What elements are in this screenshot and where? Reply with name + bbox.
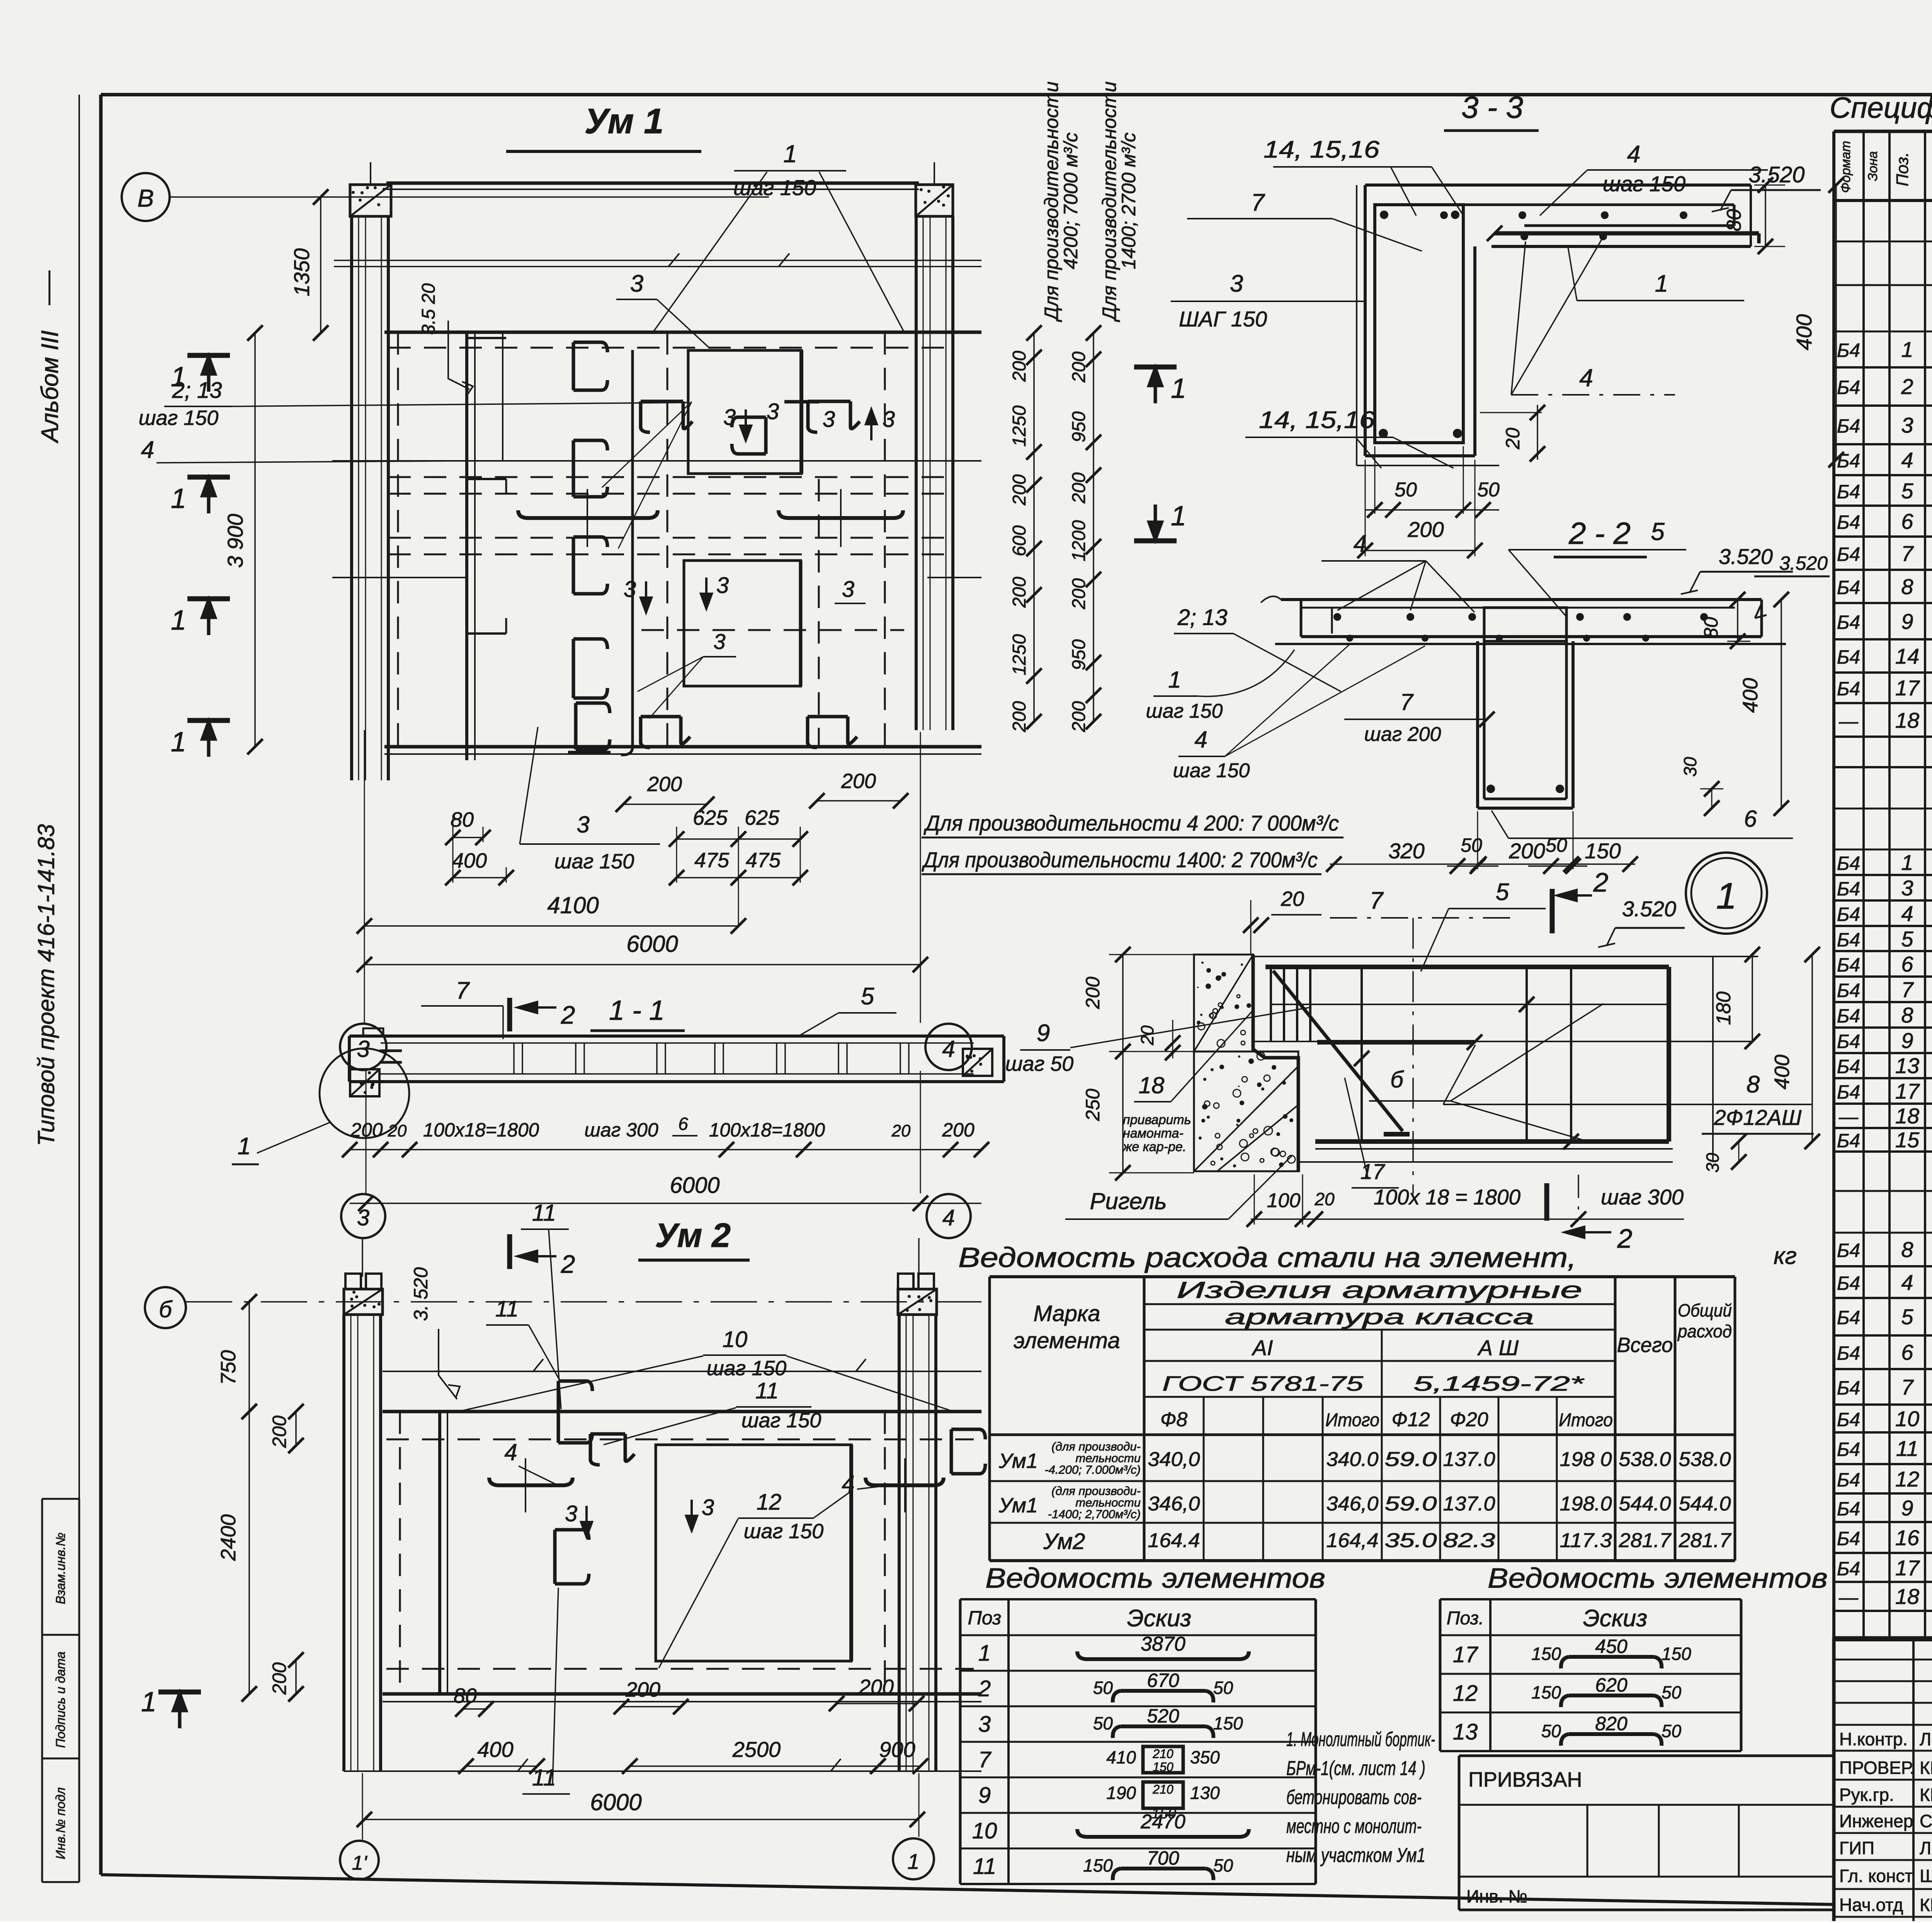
plan Um2 opening rect (656, 1445, 851, 1661)
svg-text:100х 18 = 1800: 100х 18 = 1800 (1374, 1185, 1520, 1209)
title block outer frame (1834, 1636, 1932, 1640)
svg-text:538.0: 538.0 (1619, 1448, 1671, 1471)
svg-text:ПРИВЯЗАН: ПРИВЯЗАН (1468, 1768, 1582, 1791)
svg-text:1: 1 (1655, 270, 1668, 297)
plan dashed rows (641, 629, 904, 631)
svg-text:1: 1 (1901, 850, 1913, 875)
axis verticals from circles to plan Um2 (362, 1238, 363, 1290)
svg-text:820: 820 (1595, 1713, 1628, 1734)
svg-text:2 - 2: 2 - 2 (1568, 516, 1631, 550)
svg-text:320: 320 (1388, 839, 1424, 863)
svg-text:Марка: Марка (1033, 1301, 1100, 1326)
svg-text:3: 3 (716, 573, 729, 598)
svg-text:164,4: 164,4 (1327, 1529, 1379, 1552)
title block signature grid (1834, 1659, 1932, 1661)
svg-text:12: 12 (757, 1490, 782, 1515)
svg-text:Инв. №: Инв. № (1466, 1886, 1527, 1906)
rebar stirrup C symbols plan Um1 (573, 342, 601, 390)
svg-text:1400; 2700 м³/с: 1400; 2700 м³/с (1118, 133, 1139, 269)
dim 1350 left of plan (320, 197, 321, 333)
svg-text:5: 5 (1901, 927, 1913, 951)
svg-text:Нач.отд: Нач.отд (1839, 1895, 1903, 1915)
section mark 2 upper for 1-1 (507, 998, 512, 1031)
svg-text:11: 11 (1896, 1436, 1918, 1461)
svg-text:шаг 300: шаг 300 (1601, 1185, 1684, 1209)
svg-text:1: 1 (1171, 373, 1186, 404)
svg-text:620: 620 (1595, 1674, 1628, 1696)
svg-text:АI: АI (1252, 1335, 1273, 1360)
svg-text:82.3: 82.3 (1443, 1529, 1495, 1552)
svg-text:200: 200 (1009, 474, 1030, 506)
svg-text:БРм-1(см. лист 14 ): БРм-1(см. лист 14 ) (1286, 1757, 1425, 1780)
svg-text:9: 9 (1037, 1020, 1050, 1046)
svg-text:150: 150 (1531, 1682, 1561, 1702)
svg-text:2: 2 (1617, 1223, 1633, 1254)
svg-text:местно с монолит-: местно с монолит- (1286, 1815, 1422, 1838)
svg-text:190: 190 (1106, 1783, 1136, 1803)
svg-text:200: 200 (1069, 472, 1089, 504)
beam stirrup sec33 (1375, 205, 1463, 443)
svg-text:475: 475 (746, 849, 781, 872)
dim row under section 1-1 (350, 1149, 981, 1150)
svg-text:шаг 200: шаг 200 (1364, 723, 1441, 746)
axis circle 3 Um2 (341, 1194, 385, 1238)
svg-text:3: 3 (978, 1712, 991, 1737)
node1 concrete upper block (1194, 955, 1253, 1052)
svg-text:шаг 300: шаг 300 (584, 1119, 658, 1141)
svg-text:3: 3 (1901, 413, 1913, 437)
svg-text:346,0: 346,0 (1327, 1493, 1379, 1515)
svg-text:100: 100 (1267, 1189, 1301, 1212)
svg-text:Поз.: Поз. (1893, 152, 1912, 187)
svg-text:5: 5 (1901, 479, 1913, 503)
svg-text:Б4: Б4 (1837, 481, 1860, 503)
svg-text:Взам.инв.№: Взам.инв.№ (53, 1532, 68, 1604)
node1 formwork edge thick (1253, 955, 1298, 1172)
svg-text:475: 475 (694, 849, 730, 872)
svg-text:ПРОВЕР.: ПРОВЕР. (1839, 1758, 1915, 1778)
svg-text:5: 5 (861, 983, 874, 1010)
svg-text:150: 150 (1083, 1855, 1113, 1875)
svg-text:шаг 150: шаг 150 (139, 406, 219, 430)
svg-text:—: — (1838, 1106, 1859, 1128)
svg-text:410: 410 (1106, 1747, 1136, 1767)
svg-text:3: 3 (842, 577, 854, 602)
svg-text:шаг 50: шаг 50 (1005, 1052, 1074, 1075)
svg-text:6000: 6000 (626, 931, 678, 957)
svg-text:Для производительности 1400: 2: Для производительности 1400: 2 700м³/с (921, 848, 1318, 872)
svg-text:198.0: 198.0 (1560, 1493, 1612, 1515)
svg-text:9: 9 (978, 1783, 991, 1808)
svg-text:4: 4 (1901, 448, 1913, 472)
svg-text:18: 18 (1895, 708, 1919, 732)
svg-text:35.0: 35.0 (1385, 1529, 1437, 1552)
sheet inner edge line (78, 95, 80, 1875)
svg-text:ШАГ 150: ШАГ 150 (1179, 307, 1267, 331)
svg-text:7: 7 (1901, 977, 1914, 1002)
plan bottom edge (384, 745, 981, 749)
svg-text:3: 3 (565, 1501, 577, 1526)
svg-text:400: 400 (1792, 314, 1816, 350)
node1 concrete lower block (1194, 1052, 1298, 1171)
slab sec22 (1261, 596, 1281, 603)
svg-text:10: 10 (1895, 1407, 1919, 1431)
svg-text:50: 50 (1541, 1721, 1561, 1741)
svg-text:137.0: 137.0 (1443, 1448, 1495, 1471)
section mark 2 lower for 1-1 (507, 1234, 512, 1269)
plan mid line 1 (332, 460, 981, 462)
svg-text:7: 7 (1901, 541, 1914, 566)
svg-text:Типовой проект 416-1-141.: Типовой проект 416-1-141.83 (33, 824, 59, 1146)
svg-text:6000: 6000 (670, 1173, 719, 1198)
svg-text:700: 700 (1147, 1847, 1179, 1869)
svg-text:450: 450 (1595, 1636, 1628, 1657)
svg-text:59.0: 59.0 (1385, 1448, 1437, 1471)
svg-text:В: В (138, 184, 154, 212)
svg-text:1: 1 (171, 605, 186, 636)
svg-text:1350: 1350 (289, 248, 314, 297)
svg-text:9: 9 (1901, 1028, 1913, 1053)
svg-text:11: 11 (532, 1200, 556, 1226)
svg-text:6: 6 (678, 1114, 688, 1134)
opening rect upper (688, 350, 801, 474)
svg-text:1200: 1200 (1069, 520, 1089, 561)
svg-text:Б4: Б4 (1837, 980, 1860, 1001)
svg-text:50: 50 (1395, 479, 1417, 501)
svg-text:3870: 3870 (1141, 1633, 1185, 1655)
svg-text:50: 50 (1546, 834, 1567, 856)
svg-text:Б4: Б4 (1837, 577, 1860, 598)
svg-text:4: 4 (942, 1205, 955, 1230)
lap bar symbols with hooks (527, 516, 649, 520)
spec concrete row group 2 (1834, 1190, 1932, 1192)
svg-text:538.0: 538.0 (1679, 1448, 1731, 1471)
svg-text:200: 200 (942, 1119, 975, 1141)
spec rows group 2 (1834, 874, 1932, 876)
svg-text:520: 520 (1147, 1705, 1179, 1727)
svg-text:Ф20: Ф20 (1450, 1408, 1488, 1431)
svg-text:1: 1 (1171, 501, 1186, 532)
svg-text:-4.200; 7.000м³/с): -4.200; 7.000м³/с) (1044, 1463, 1141, 1476)
svg-text:200: 200 (350, 1119, 383, 1141)
specification table grid verticals (1832, 131, 1835, 1640)
svg-text:ГИП: ГИП (1839, 1838, 1874, 1858)
svg-text:Н.контр.: Н.контр. (1839, 1729, 1908, 1749)
svg-text:2: 2 (561, 1250, 575, 1278)
svg-text:2; 13: 2; 13 (172, 378, 222, 403)
svg-text:Ум 2: Ум 2 (655, 1216, 731, 1254)
svg-text:2: 2 (1901, 374, 1913, 399)
svg-text:Поз.: Поз. (1447, 1608, 1484, 1629)
svg-text:164.4: 164.4 (1148, 1529, 1200, 1552)
svg-text:Для производительности: Для производительности (1041, 82, 1062, 323)
axis circle 1prime Um2 (340, 1841, 379, 1879)
element list table 1 grid (959, 1599, 962, 1884)
svg-text:Б4: Б4 (1837, 929, 1860, 951)
svg-text:400: 400 (1770, 1055, 1794, 1089)
svg-text:ШАПИРО: ШАПИРО (1920, 1866, 1932, 1886)
svg-text:20: 20 (1314, 1189, 1335, 1209)
svg-text:1 - 1: 1 - 1 (609, 995, 665, 1026)
slab 1-1 left anchor block (350, 1069, 379, 1096)
svg-text:3: 3 (1901, 876, 1913, 900)
svg-text:18: 18 (1895, 1584, 1919, 1609)
svg-text:Ум2: Ум2 (1043, 1529, 1085, 1554)
svg-text:50: 50 (1093, 1678, 1113, 1698)
svg-text:200: 200 (647, 773, 682, 796)
node1 bottom lines (1315, 1148, 1673, 1150)
svg-text:Ведомость элементов: Ведомость элементов (985, 1563, 1325, 1594)
svg-text:Б4: Б4 (1837, 678, 1860, 700)
svg-text:20: 20 (1137, 1025, 1157, 1046)
axis circle 1 Um2 (893, 1838, 934, 1879)
dashed verticals in plan (397, 332, 399, 747)
svg-text:Спецификация элементов мон: Спецификация элементов монолитных участк… (1830, 92, 1932, 124)
svg-text:200: 200 (859, 1675, 894, 1699)
svg-text:Б4: Б4 (1837, 1005, 1860, 1027)
svg-text:Ведомость расхода стали на: Ведомость расхода стали на элемент, (958, 1242, 1577, 1273)
svg-text:Ф12: Ф12 (1391, 1408, 1430, 1431)
leader lines from 2;13 to stirrups (602, 402, 692, 549)
svg-text:210: 210 (1152, 1782, 1173, 1796)
svg-text:3: 3 (624, 577, 636, 602)
svg-text:шаг 150: шаг 150 (1173, 759, 1250, 782)
svg-text:Б4: Б4 (1837, 904, 1860, 925)
section mark 2 top of node (1550, 889, 1555, 933)
column K2 strip (915, 216, 918, 730)
svg-text:12: 12 (1895, 1467, 1919, 1491)
svg-text:11: 11 (495, 1296, 519, 1322)
svg-text:КРАСНОВА: КРАСНОВА (1920, 1758, 1932, 1778)
svg-text:1: 1 (238, 1133, 251, 1160)
svg-text:Общий: Общий (1678, 1300, 1732, 1320)
svg-text:13: 13 (1453, 1719, 1478, 1745)
svg-text:11: 11 (973, 1854, 996, 1879)
svg-text:150: 150 (1153, 1760, 1173, 1774)
svg-text:Б4: Б4 (1837, 1377, 1860, 1399)
svg-text:50: 50 (1461, 834, 1482, 856)
svg-text:281.7: 281.7 (1678, 1529, 1731, 1552)
svg-text:625: 625 (693, 806, 728, 829)
svg-text:5: 5 (1901, 1305, 1913, 1329)
svg-text:180: 180 (1713, 992, 1735, 1025)
svg-text:281.7: 281.7 (1618, 1529, 1672, 1552)
svg-text:намонта-: намонта- (1123, 1126, 1184, 1141)
svg-text:б: б (159, 1296, 173, 1322)
drawing frame border (101, 93, 1932, 97)
svg-text:3: 3 (713, 629, 725, 654)
svg-text:Для производительности: Для производительности (1099, 82, 1120, 323)
svg-text:Б4: Б4 (1837, 415, 1860, 437)
svg-text:6: 6 (1901, 509, 1913, 533)
level line 3.520 row (334, 260, 981, 261)
svg-text:340.0: 340.0 (1327, 1448, 1379, 1471)
svg-text:Гл. конст.: Гл. конст. (1839, 1866, 1916, 1886)
beam outline sec33 (1356, 185, 1357, 465)
svg-text:2400: 2400 (217, 1514, 240, 1561)
specification table header (1834, 130, 1932, 133)
svg-text:7: 7 (1251, 189, 1265, 216)
svg-text:20: 20 (388, 1121, 407, 1140)
svg-text:Б4: Б4 (1837, 853, 1860, 874)
svg-text:130: 130 (1190, 1783, 1220, 1803)
svg-text:1: 1 (1901, 337, 1913, 362)
svg-text:600: 600 (1009, 525, 1030, 556)
section marks 1-1 left side (187, 353, 230, 358)
plan Um2 slab top edge (383, 1410, 981, 1413)
svg-text:Ведомость элементов: Ведомость элементов (1488, 1563, 1828, 1594)
svg-text:Эскиз: Эскиз (1127, 1605, 1192, 1632)
slab 1-1 spacers (513, 1043, 515, 1074)
svg-text:3.520: 3.520 (1748, 162, 1804, 187)
svg-text:1: 1 (171, 727, 186, 758)
privyazan stamp box (1459, 1755, 1834, 1757)
dim 3900 left of plan (254, 333, 256, 747)
svg-text:14, 15,16: 14, 15,16 (1264, 136, 1380, 163)
svg-text:Б4: Б4 (1837, 511, 1860, 533)
column K2 hatched head (916, 185, 953, 216)
svg-text:1: 1 (171, 483, 186, 514)
svg-text:Б4: Б4 (1837, 1081, 1860, 1103)
svg-text:8: 8 (1901, 574, 1913, 599)
svg-text:670: 670 (1147, 1670, 1179, 1691)
svg-text:3: 3 (630, 270, 643, 297)
svg-text:А Ш: А Ш (1477, 1335, 1519, 1360)
svg-text:ЛОУЦКЕР: ЛОУЦКЕР (1920, 1838, 1932, 1858)
svg-text:Б4: Б4 (1837, 1240, 1860, 1261)
column strips Um2 with curb blocks (345, 1274, 361, 1289)
svg-text:КРАСНОВА: КРАСНОВА (1920, 1785, 1932, 1805)
axis circle 4 for section 1-1 (925, 1024, 972, 1070)
svg-text:Инв.№ подл: Инв.№ подл (53, 1787, 68, 1859)
svg-text:2: 2 (1593, 867, 1609, 897)
svg-text:кг: кг (1774, 1243, 1797, 1269)
axis circle V (122, 173, 170, 221)
svg-text:13: 13 (1895, 1053, 1919, 1078)
svg-text:17: 17 (1895, 1079, 1920, 1103)
svg-text:30: 30 (1702, 1153, 1723, 1173)
svg-text:100х18=1800: 100х18=1800 (709, 1119, 825, 1141)
slab rebar dots sec22 (1333, 613, 1341, 621)
svg-text:Итого: Итого (1559, 1410, 1613, 1430)
svg-text:Эскиз: Эскиз (1583, 1605, 1648, 1632)
plan slab top edge (384, 331, 981, 334)
spec group Um1 (1400,2700) header (1834, 808, 1932, 810)
svg-text:4100: 4100 (547, 892, 599, 918)
svg-text:30: 30 (1680, 757, 1700, 777)
svg-text:элемента: элемента (1014, 1328, 1120, 1353)
svg-text:3: 3 (883, 407, 895, 432)
svg-text:150: 150 (1531, 1644, 1561, 1664)
spec rows group 3 (1834, 1265, 1932, 1267)
svg-text:1250: 1250 (1009, 634, 1030, 675)
svg-text:Б4: Б4 (1837, 1439, 1860, 1460)
svg-text:17: 17 (1895, 676, 1920, 700)
svg-text:18: 18 (1895, 1104, 1919, 1128)
svg-text:1250: 1250 (1009, 405, 1030, 447)
section mark 2 bottom of node (1544, 1183, 1549, 1221)
svg-text:7: 7 (1370, 887, 1384, 914)
svg-text:4: 4 (1901, 1270, 1913, 1294)
svg-text:625: 625 (745, 806, 780, 829)
svg-text:Лоуцкер: Лоуцкер (1920, 1729, 1932, 1749)
bar 1 under slab sec33 (1495, 231, 1759, 236)
svg-text:шаг 150: шаг 150 (554, 850, 634, 873)
svg-text:2Ф12АШ: 2Ф12АШ (1714, 1105, 1802, 1130)
svg-text:Б4: Б4 (1837, 612, 1860, 633)
svg-text:Изделия арматурные: Изделия арматурные (1177, 1277, 1582, 1303)
svg-text:7: 7 (978, 1747, 992, 1772)
plan Um2 interior walls (438, 1412, 441, 1694)
svg-text:Б4: Б4 (1837, 377, 1860, 398)
axis circle B (6) Um2 (145, 1287, 186, 1328)
svg-text:Рук.гр.: Рук.гр. (1839, 1785, 1894, 1805)
svg-text:200: 200 (841, 770, 876, 793)
svg-text:4200; 7000 м³/с: 4200; 7000 м³/с (1060, 133, 1082, 269)
svg-text:200: 200 (269, 1415, 290, 1448)
svg-text:3 900: 3 900 (223, 514, 247, 568)
element list table 2 grid (1439, 1599, 1442, 1751)
svg-text:3 - 3: 3 - 3 (1461, 90, 1523, 124)
svg-text:20: 20 (1281, 887, 1304, 911)
svg-text:Поз: Поз (968, 1607, 1002, 1629)
node1 bottom bar (1315, 1139, 1669, 1144)
svg-text:10: 10 (972, 1818, 997, 1843)
svg-text:Альбом III: Альбом III (37, 330, 63, 444)
svg-text:14: 14 (1895, 644, 1919, 668)
svg-text:544.0: 544.0 (1619, 1493, 1671, 1515)
svg-text:8: 8 (1747, 1071, 1760, 1098)
svg-text:100x18=1800: 100x18=1800 (423, 1119, 539, 1141)
svg-text:80: 80 (454, 1684, 477, 1707)
svg-text:3.5 20: 3.5 20 (418, 283, 439, 335)
svg-text:4: 4 (1627, 141, 1640, 168)
axis circle 3 for section 1-1 (340, 1024, 386, 1070)
svg-text:6: 6 (1744, 806, 1757, 832)
svg-text:1: 1 (141, 1687, 156, 1717)
svg-text:198 0: 198 0 (1560, 1448, 1612, 1471)
svg-text:Ф8: Ф8 (1160, 1408, 1187, 1431)
svg-text:Б4: Б4 (1837, 1409, 1860, 1430)
svg-text:шаг 150: шаг 150 (733, 175, 816, 200)
opening rect lower (684, 561, 801, 686)
svg-text:8: 8 (1901, 1237, 1913, 1262)
svg-text:59.0: 59.0 (1385, 1493, 1437, 1515)
svg-text:Всего: Всего (1617, 1334, 1673, 1357)
svg-text:Б4: Б4 (1837, 340, 1860, 361)
svg-text:шаг 150: шаг 150 (1146, 700, 1223, 722)
svg-text:950: 950 (1069, 639, 1089, 670)
svg-text:3: 3 (723, 405, 736, 430)
svg-text:80: 80 (1700, 617, 1722, 639)
svg-text:3: 3 (823, 407, 835, 432)
svg-text:-1400; 2,700м³/с): -1400; 2,700м³/с) (1048, 1507, 1141, 1521)
slab 1-1 right anchor block (963, 1049, 992, 1076)
svg-text:20: 20 (891, 1121, 911, 1140)
svg-text:200: 200 (1407, 517, 1444, 542)
svg-text:Б4: Б4 (1837, 1307, 1860, 1328)
svg-text:200: 200 (1069, 578, 1089, 610)
margin bottom-left stamp table (41, 1499, 43, 1882)
node1 stirrup verticals dense at left (1270, 967, 1272, 1041)
svg-text:2; 13: 2; 13 (1177, 605, 1228, 630)
svg-text:Ригель: Ригель (1090, 1188, 1167, 1214)
svg-text:950: 950 (1069, 411, 1089, 442)
svg-text:Ум1: Ум1 (998, 1449, 1038, 1473)
svg-text:расход: расход (1677, 1321, 1732, 1341)
svg-text:ным участком Ум1: ным участком Ум1 (1286, 1844, 1425, 1867)
svg-text:СТРИГИНА: СТРИГИНА (1920, 1811, 1932, 1831)
